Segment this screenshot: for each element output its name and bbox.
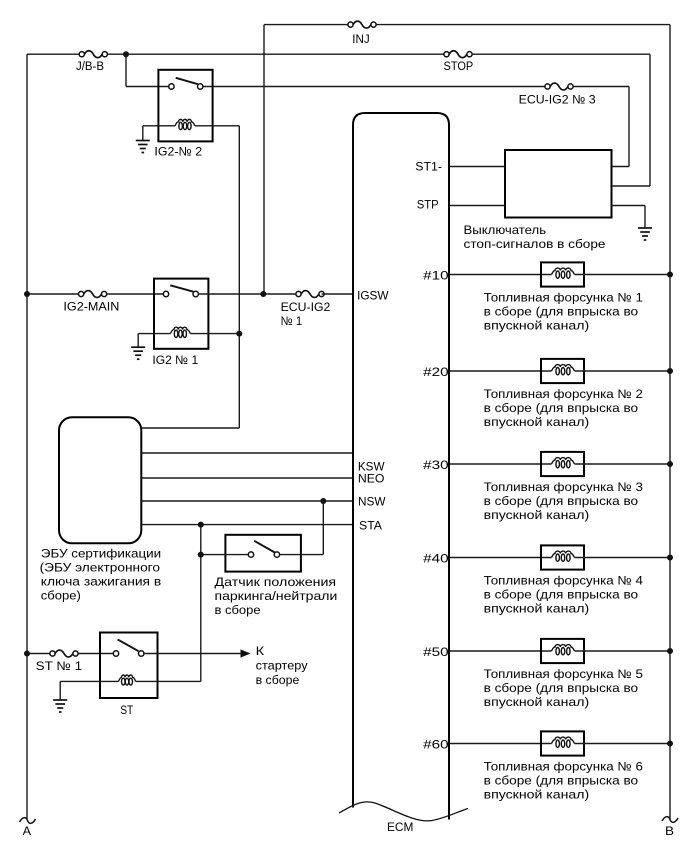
svg-text:Топливная форсунка № 6: Топливная форсунка № 6 bbox=[484, 760, 643, 774]
svg-text:ECU-IG2 № 3: ECU-IG2 № 3 bbox=[519, 92, 596, 106]
svg-text:NEO: NEO bbox=[358, 472, 385, 486]
svg-text:#30: #30 bbox=[423, 458, 449, 472]
svg-text:впускной канал): впускной канал) bbox=[484, 788, 590, 802]
svg-text:стоп-сигналов в сборе: стоп-сигналов в сборе bbox=[464, 237, 606, 251]
svg-text:#10: #10 bbox=[423, 269, 449, 283]
svg-text:К: К bbox=[256, 644, 265, 658]
svg-text:ЭБУ сертификации: ЭБУ сертификации bbox=[41, 546, 161, 560]
svg-text:IG2-MAIN: IG2-MAIN bbox=[63, 300, 119, 314]
svg-text:в сборе (для впрыска во: в сборе (для впрыска во bbox=[484, 588, 639, 602]
svg-text:#60: #60 bbox=[423, 738, 449, 752]
svg-text:ST № 1: ST № 1 bbox=[36, 659, 83, 673]
svg-text:Топливная форсунка № 3: Топливная форсунка № 3 bbox=[484, 480, 643, 494]
svg-text:сборе): сборе) bbox=[41, 588, 81, 602]
svg-text:Топливная форсунка № 4: Топливная форсунка № 4 bbox=[484, 574, 643, 588]
svg-text:Топливная форсунка № 5: Топливная форсунка № 5 bbox=[484, 667, 643, 681]
svg-text:стартеру: стартеру bbox=[256, 659, 309, 673]
svg-text:ST1-: ST1- bbox=[415, 160, 442, 174]
svg-text:#40: #40 bbox=[423, 552, 449, 566]
svg-text:#20: #20 bbox=[423, 365, 449, 379]
svg-text:в сборе (для впрыска во: в сборе (для впрыска во bbox=[484, 401, 639, 415]
svg-text:ST: ST bbox=[120, 703, 133, 717]
svg-text:Датчик положения: Датчик положения bbox=[215, 575, 337, 589]
svg-text:STP: STP bbox=[417, 198, 439, 212]
svg-text:Топливная форсунка № 1: Топливная форсунка № 1 bbox=[484, 291, 643, 305]
svg-text:ECM: ECM bbox=[387, 820, 413, 834]
svg-text:INJ: INJ bbox=[352, 32, 369, 46]
svg-text:в сборе (для впрыска во: в сборе (для впрыска во bbox=[484, 681, 639, 695]
svg-text:J/B-B: J/B-B bbox=[76, 59, 104, 73]
svg-text:впускной канал): впускной канал) bbox=[484, 508, 590, 522]
svg-text:№ 1: № 1 bbox=[281, 314, 303, 328]
svg-text:A: A bbox=[23, 824, 32, 838]
svg-text:STOP: STOP bbox=[444, 59, 474, 73]
svg-text:IG2 № 1: IG2 № 1 bbox=[152, 353, 198, 367]
svg-text:в сборе: в сборе bbox=[215, 603, 261, 617]
svg-text:ключа зажигания в: ключа зажигания в bbox=[41, 574, 162, 588]
svg-text:в сборе: в сборе bbox=[256, 673, 300, 687]
svg-text:в сборе (для впрыска во: в сборе (для впрыска во bbox=[484, 774, 639, 788]
svg-text:впускной канал): впускной канал) bbox=[484, 319, 590, 333]
svg-text:NSW: NSW bbox=[358, 495, 386, 509]
svg-text:(ЭБУ электронного: (ЭБУ электронного bbox=[40, 560, 161, 574]
svg-text:Выключатель: Выключатель bbox=[464, 223, 547, 237]
svg-text:впускной канал): впускной канал) bbox=[484, 695, 590, 709]
svg-text:паркинга/нейтрали: паркинга/нейтрали bbox=[215, 589, 338, 603]
svg-text:впускной канал): впускной канал) bbox=[484, 415, 590, 429]
svg-text:IG2-№ 2: IG2-№ 2 bbox=[154, 144, 202, 158]
svg-text:STA: STA bbox=[359, 519, 383, 533]
svg-text:B: B bbox=[665, 824, 674, 838]
svg-text:#50: #50 bbox=[423, 645, 449, 659]
svg-text:впускной канал): впускной канал) bbox=[484, 602, 590, 616]
svg-text:Топливная форсунка № 2: Топливная форсунка № 2 bbox=[484, 387, 643, 401]
svg-text:в сборе (для впрыска во: в сборе (для впрыска во bbox=[484, 305, 639, 319]
svg-text:IGSW: IGSW bbox=[357, 288, 389, 302]
svg-text:в сборе (для впрыска во: в сборе (для впрыска во bbox=[484, 494, 639, 508]
svg-text:ECU-IG2: ECU-IG2 bbox=[281, 300, 331, 314]
